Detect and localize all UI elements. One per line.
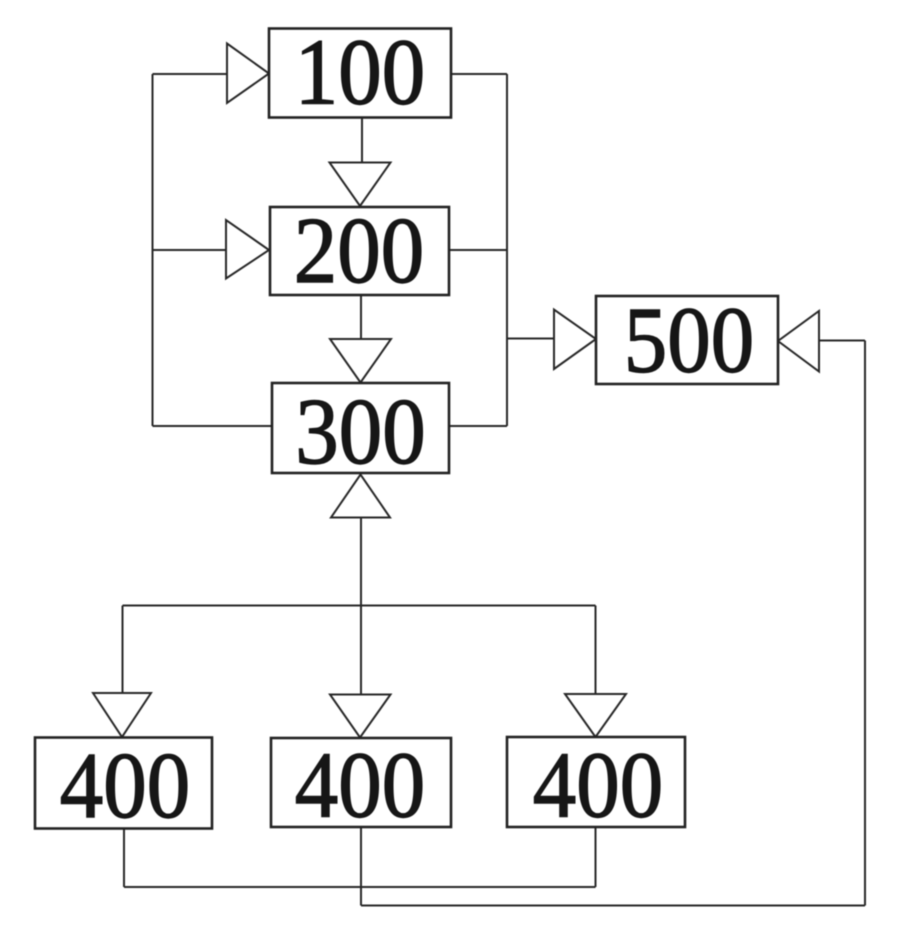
block 500 box <box>596 296 778 384</box>
wire below left block 400 <box>123 828 125 887</box>
wire far right vertical return <box>864 341 866 906</box>
arrowhead into block 100 <box>227 44 269 104</box>
wire left bus to arrow of block 200 <box>153 249 228 251</box>
block 200 box <box>270 207 449 295</box>
wire block 300 right side to right bus <box>449 425 507 427</box>
left block 400 box <box>35 738 212 829</box>
svg-text:300: 300 <box>295 379 425 484</box>
wire right bus to left arrow of block 500 <box>507 338 555 340</box>
wire left bus to arrow of block 100 <box>153 73 229 75</box>
wire block 200 down to arrow <box>360 295 362 340</box>
wire from up-arrow of block 300 down to distribution line and middle branch <box>360 517 362 695</box>
svg-text:200: 200 <box>294 198 424 303</box>
svg-text:400: 400 <box>60 733 190 838</box>
wire right branch down to arrow of right block 400 <box>595 606 597 696</box>
arrowhead block 100 to block 200 <box>330 163 391 207</box>
svg-text:400: 400 <box>295 732 425 837</box>
wire block 100 down to arrow <box>361 117 363 163</box>
block 300 box <box>272 383 449 473</box>
arrowhead into block 200 <box>226 220 269 279</box>
wire far right return into right arrow of block 500 <box>819 340 865 342</box>
right block 400 box <box>507 737 685 827</box>
arrowhead right into block 500 <box>778 311 819 372</box>
arrowhead into left block 400 <box>93 693 151 737</box>
wire distribution horizontal line <box>123 605 596 607</box>
wire below middle block 400 <box>360 827 362 906</box>
block 100 box <box>269 29 451 118</box>
wire left branch down to arrow of left block 400 <box>122 606 124 695</box>
wire block 100 right side to right bus <box>450 73 507 75</box>
arrowhead up into block 300 <box>331 475 390 518</box>
arrowhead left into block 500 <box>554 310 596 370</box>
arrowhead block 200 to block 300 <box>330 339 391 383</box>
wire left bus into block 300 left side <box>153 425 273 427</box>
svg-text:400: 400 <box>533 732 663 837</box>
middle block 400 box <box>271 738 451 827</box>
wire below right block 400 <box>595 827 597 887</box>
wire left vertical bus <box>152 74 154 426</box>
wire lower return line to far right <box>361 905 865 907</box>
wire right vertical bus <box>506 74 508 426</box>
wire bottom collector line <box>124 886 596 888</box>
svg-text:500: 500 <box>624 287 754 392</box>
arrowhead into right block 400 <box>565 694 626 737</box>
arrowhead into middle block 400 <box>330 695 391 738</box>
wire block 200 right side to right bus <box>449 249 507 251</box>
svg-text:100: 100 <box>295 19 425 124</box>
